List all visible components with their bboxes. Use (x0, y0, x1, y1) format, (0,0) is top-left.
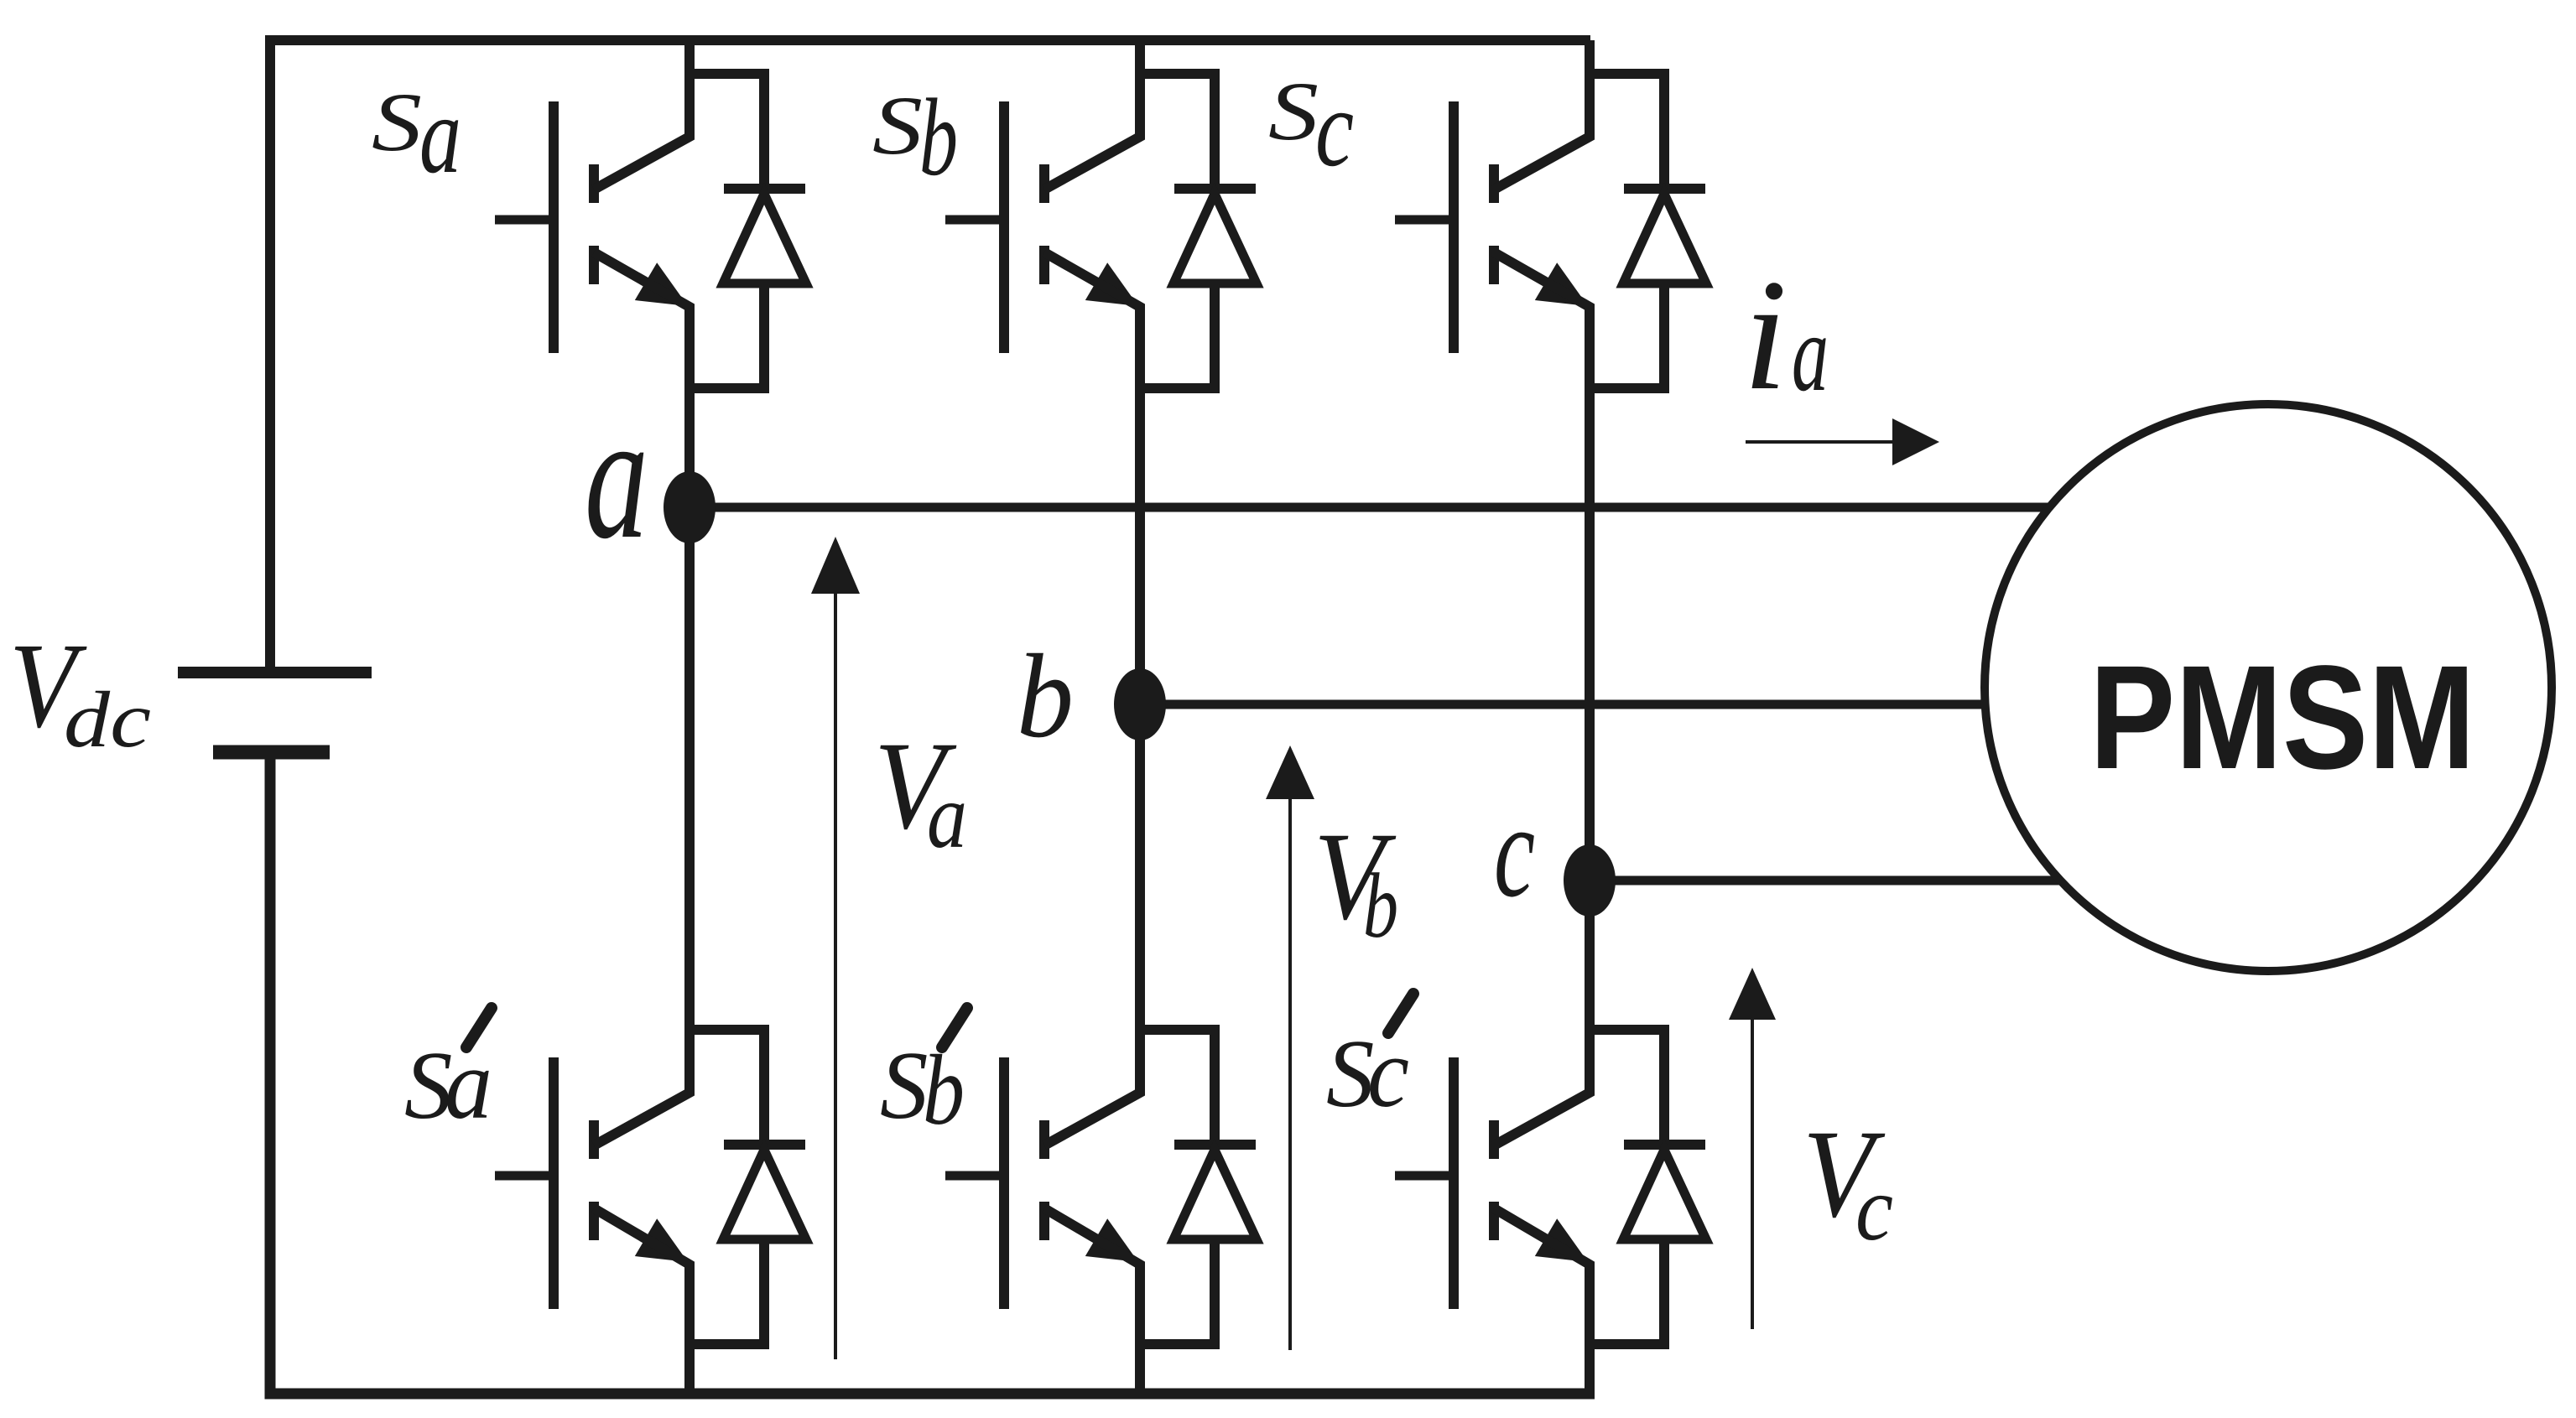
svg-text:a: a (585, 376, 648, 576)
svg-text:b: b (1363, 854, 1398, 957)
svg-text:a: a (927, 765, 967, 867)
svg-text:S: S (872, 79, 923, 172)
svg-text:dc: dc (64, 675, 151, 764)
svg-text:a: a (1792, 291, 1829, 414)
svg-text:PMSM: PMSM (2089, 636, 2475, 800)
svg-text:b: b (1017, 630, 1074, 762)
svg-text:S: S (880, 1032, 929, 1139)
svg-text:a: a (419, 73, 461, 196)
svg-text:S: S (1268, 65, 1319, 158)
svg-text:c: c (1315, 66, 1354, 190)
svg-text:b: b (923, 1034, 965, 1145)
svg-text:b: b (919, 75, 958, 199)
svg-text:i: i (1743, 247, 1788, 423)
svg-text:c: c (1855, 1157, 1893, 1260)
svg-text:c: c (1367, 1016, 1409, 1128)
svg-text:a: a (445, 1028, 492, 1140)
svg-text:S: S (372, 75, 422, 169)
svg-text:c: c (1494, 776, 1535, 925)
